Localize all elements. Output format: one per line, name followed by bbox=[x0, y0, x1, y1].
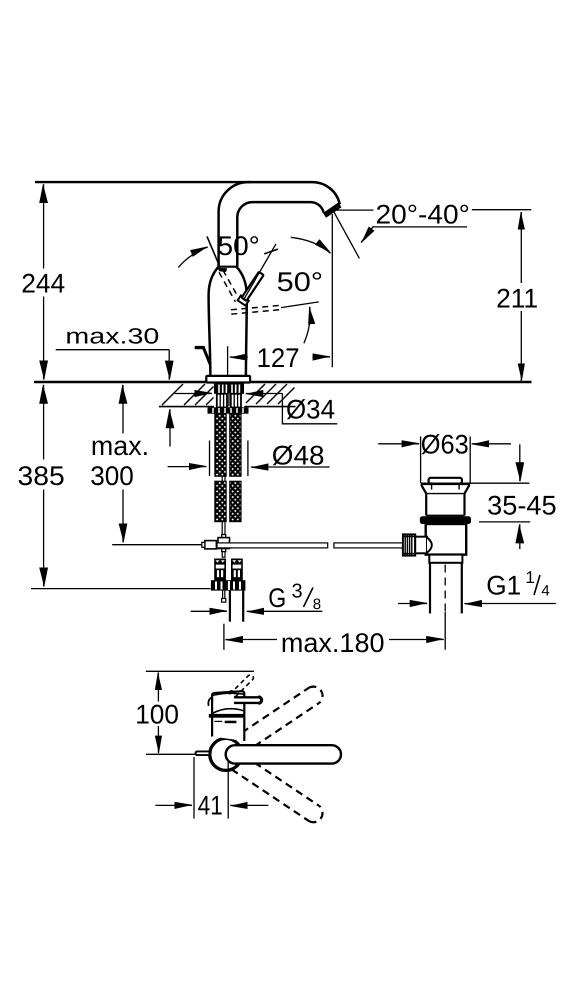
flange top bbox=[421, 482, 470, 485]
G3/8 hose fittings bbox=[214, 559, 243, 581]
horizontal pop-up rod segment 1 bbox=[217, 543, 328, 548]
svg-text:8: 8 bbox=[313, 596, 321, 613]
top view: body circle bbox=[210, 738, 242, 770]
top view: dashed spout up position bbox=[232, 687, 323, 753]
spout tip face (aerator end) bbox=[325, 205, 340, 216]
deck / mounting surface line bbox=[34, 381, 532, 384]
top view: spout tube root cap bbox=[226, 745, 235, 763]
top view: handle housing bbox=[212, 691, 244, 741]
horizontal pop-up rod segment 2 bbox=[334, 543, 404, 548]
faucet body left edge bbox=[209, 267, 219, 377]
axis cross tick (pivot X) bbox=[264, 249, 278, 254]
handle 50-deg arc arrow bbox=[304, 307, 310, 343]
20-40 angle leg line bbox=[334, 212, 360, 259]
top view: 100 dim top extension bbox=[146, 670, 254, 672]
dimension 211 bbox=[520, 212, 522, 283]
TOP VIEW bbox=[146, 671, 341, 822]
svg-text:300: 300 bbox=[90, 461, 134, 491]
SIDE VIEW bbox=[31, 182, 556, 650]
top view: dome arc bbox=[212, 709, 244, 714]
svg-text:Ø63: Ø63 bbox=[421, 430, 469, 460]
svg-text:385: 385 bbox=[18, 461, 65, 491]
top view: dashed spout down position bbox=[232, 756, 323, 822]
svg-text:1: 1 bbox=[525, 568, 534, 587]
244 top extension line (collinear with spout top) bbox=[35, 181, 250, 183]
pop-up lever hook on body bbox=[196, 346, 203, 349]
mounting shank through deck bbox=[214, 383, 244, 394]
svg-text:G1: G1 bbox=[486, 571, 521, 601]
svg-text:3: 3 bbox=[292, 581, 303, 603]
flexible hoses upper segment bbox=[215, 414, 226, 477]
knurled knob bbox=[403, 534, 415, 555]
shank studs below bbox=[217, 394, 227, 408]
dimension 41 extensions bbox=[193, 757, 195, 819]
svg-text:211: 211 bbox=[496, 283, 538, 313]
svg-text:50°: 50° bbox=[277, 267, 324, 297]
top view: black band bbox=[209, 714, 245, 718]
faucet body right edge bbox=[236, 267, 246, 377]
dimension 127 bbox=[227, 346, 229, 376]
svg-text:50°: 50° bbox=[218, 231, 260, 261]
top view: left flick bbox=[208, 697, 212, 706]
pop-up rod cross fitting bbox=[222, 535, 226, 538]
top view: 100 dim bottom extension bbox=[146, 753, 196, 755]
swivel arc arrow right bbox=[291, 237, 331, 253]
riser joint line bbox=[218, 266, 238, 268]
swivel tick line through riser edge bbox=[207, 236, 219, 264]
deck hatching left bbox=[162, 384, 214, 405]
drain pipe bbox=[429, 563, 431, 614]
svg-text:G: G bbox=[268, 583, 286, 613]
dimension max.180 bbox=[223, 624, 225, 650]
svg-text:35-45: 35-45 bbox=[487, 490, 557, 520]
top view: spout tube solid bbox=[235, 745, 341, 763]
rod connector port bbox=[415, 537, 427, 554]
svg-text:Ø48: Ø48 bbox=[272, 440, 325, 470]
pop-up rod reference line bbox=[112, 544, 205, 546]
flange cone bbox=[421, 485, 426, 494]
svg-text:max.30: max.30 bbox=[65, 323, 159, 348]
supply pipe stub bbox=[229, 591, 231, 622]
deck hatching right bbox=[246, 384, 295, 404]
dimension Ø63 bbox=[420, 437, 422, 484]
dimension 385 bbox=[43, 385, 45, 460]
top view: detail ticks bbox=[214, 720, 222, 722]
dimension 244 bbox=[43, 184, 45, 268]
top view: pop-up knob bar bbox=[196, 751, 209, 755]
svg-text:max.180: max.180 bbox=[281, 628, 385, 658]
svg-text:244: 244 bbox=[21, 268, 65, 298]
drain collar bbox=[429, 555, 462, 563]
svg-text:Ø34: Ø34 bbox=[286, 395, 335, 425]
spout outer profile (riser left + top + bend) bbox=[219, 182, 340, 267]
svg-text:127: 127 bbox=[257, 343, 300, 373]
drain centerline bbox=[444, 565, 446, 613]
dashed handle end cap (left tilted position) bbox=[218, 268, 228, 272]
deck underside right segment bbox=[244, 406, 295, 408]
mounting nut under deck bbox=[208, 407, 249, 413]
base plate (escutcheon) bbox=[206, 376, 250, 383]
dimension 100 bbox=[157, 673, 159, 702]
rubber seal bbox=[420, 516, 471, 524]
dimension 35-45 bbox=[470, 482, 529, 484]
top view: dashed handle up position bbox=[230, 674, 255, 699]
pop-up rod clamp block bbox=[205, 541, 217, 549]
handle lever (solid) bbox=[238, 271, 266, 306]
dimension G1 1/4 arrows bbox=[398, 603, 427, 605]
dashed handle horizontal position bbox=[231, 305, 282, 314]
handle horizontal axis line bbox=[281, 302, 319, 308]
dimension 41 arrows bbox=[155, 804, 192, 806]
handle axis thin line bbox=[244, 244, 277, 300]
dimension 20-40 leader lines bbox=[335, 209, 374, 211]
pop-up rod vertical segments bbox=[222, 476, 225, 481]
top view: lever (solid) bbox=[234, 697, 261, 703]
deck underside left segment bbox=[159, 406, 214, 408]
neck cylinder bbox=[425, 494, 427, 516]
dashed handle tilted-left position bbox=[219, 270, 239, 302]
svg-text:max.: max. bbox=[91, 431, 149, 461]
flexible hoses lower segment bbox=[215, 481, 226, 521]
plug knob bbox=[429, 478, 462, 484]
svg-text:41: 41 bbox=[198, 791, 223, 821]
swivel arc arrow left bbox=[178, 247, 207, 268]
svg-text:100: 100 bbox=[135, 700, 179, 730]
top view: pivot bump bbox=[228, 691, 234, 694]
dimension Ø34 arrows + label leader bbox=[175, 393, 212, 395]
drain body bbox=[426, 524, 467, 555]
G3/8 connection nuts bbox=[211, 580, 246, 590]
dimension max.300 bbox=[122, 385, 124, 434]
dimension G3/8 arrows bbox=[191, 610, 227, 612]
dimension Ø48 bbox=[209, 441, 211, 477]
svg-text:20°-40°: 20°-40° bbox=[376, 200, 470, 230]
top view: housing top arc bbox=[213, 693, 244, 695]
spout inner profile bbox=[237, 202, 323, 267]
dimension max.30 leader bbox=[56, 349, 170, 351]
svg-text:4: 4 bbox=[541, 583, 549, 600]
